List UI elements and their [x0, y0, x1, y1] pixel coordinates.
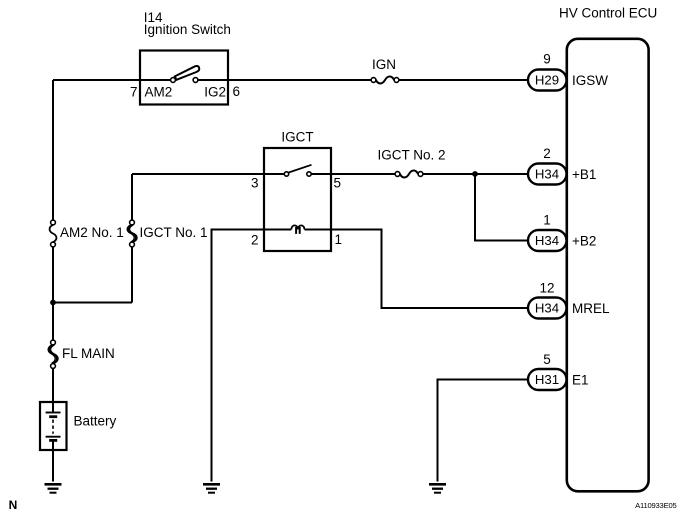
- junction node at (475,174): [472, 171, 478, 177]
- wire: fuse to +B1 pin: [423, 173, 530, 175]
- ground (battery): [45, 484, 62, 492]
- wire: relay switch row inside box: [264, 173, 331, 175]
- wire: left rail below AM2 fuse to junction: [52, 247, 54, 303]
- switch contact circle AM2 (pin 7): [171, 78, 176, 83]
- relay IGCT box: [264, 148, 331, 251]
- battery cell plates: [52, 402, 54, 413]
- wire: IGN feed from ignition switch to IGN fuse: [228, 79, 371, 81]
- svg-text:+B2: +B2: [572, 233, 596, 248]
- relay contact circle pin3 side: [284, 172, 288, 176]
- svg-text:IGCT No. 2: IGCT No. 2: [378, 148, 446, 163]
- fuse FL MAIN (fusible link): [51, 340, 56, 345]
- connector pin H31 (E1): [528, 369, 567, 390]
- wire: IGN fuse to H29 IGSW pin: [399, 79, 530, 81]
- connector pin H29 (IGSW): [528, 70, 567, 91]
- svg-text:IGCT No. 1: IGCT No. 1: [140, 225, 208, 240]
- svg-text:IGSW: IGSW: [572, 73, 608, 88]
- junction node at (53,302.5): [50, 300, 56, 306]
- relay switch lever: [288, 165, 311, 173]
- wire: battery rail top horizontal (53,80)-(140,80): [53, 79, 140, 81]
- wire: battery to ground: [52, 450, 54, 482]
- connector pin H34 (+B1): [528, 164, 567, 185]
- svg-text:H34: H34: [535, 167, 559, 182]
- wire: left rail vertical x=53 from y80 to AM2 fuse: [52, 80, 54, 220]
- svg-text:HV Control ECU: HV Control ECU: [559, 6, 657, 21]
- svg-text:5: 5: [543, 352, 551, 367]
- wire: to IGCT pin 3 (132,174)-(264,174): [132, 173, 264, 175]
- wire: +B2 branch vertical and horizontal: [475, 174, 530, 241]
- fuse AM2 No. 1 (left rail): [51, 220, 56, 225]
- svg-text:A110933E05: A110933E05: [635, 501, 676, 510]
- relay coil: [291, 225, 304, 229]
- svg-text:2: 2: [251, 233, 259, 248]
- ground (E1): [429, 484, 446, 492]
- fuse IGN: [371, 78, 376, 83]
- svg-text:9: 9: [543, 52, 551, 67]
- svg-text:1: 1: [543, 213, 551, 228]
- svg-text:E1: E1: [572, 372, 589, 387]
- wire: IGCT pin1 to MREL: [331, 230, 530, 309]
- ignition switch I14 box: [140, 51, 228, 105]
- relay contact circle pin5 side: [307, 172, 311, 176]
- svg-text:5: 5: [334, 176, 342, 191]
- wire: IGCT No.1 rail vertical x=132: [131, 174, 133, 303]
- wire: inside ignition switch to AM2 contact: [140, 79, 171, 81]
- wire: E1 to ground: [438, 380, 531, 482]
- svg-text:2: 2: [543, 146, 551, 161]
- svg-text:12: 12: [539, 281, 554, 296]
- svg-text:+B1: +B1: [572, 167, 596, 182]
- wire: left rail junction to FL MAIN: [52, 303, 54, 341]
- svg-text:7: 7: [130, 85, 138, 100]
- svg-text:Ignition Switch: Ignition Switch: [144, 22, 231, 37]
- svg-text:6: 6: [233, 84, 241, 99]
- svg-text:IGN: IGN: [372, 57, 396, 72]
- svg-text:MREL: MREL: [572, 301, 610, 316]
- wire: IGCT pin2 to ground rail: [212, 230, 265, 482]
- switch blade lever: [175, 66, 199, 80]
- svg-text:H31: H31: [535, 372, 559, 387]
- svg-text:3: 3: [251, 176, 259, 191]
- wire: IG2 contact to box edge: [198, 79, 228, 81]
- svg-text:AM2: AM2: [145, 85, 173, 100]
- svg-text:H29: H29: [535, 73, 559, 88]
- svg-text:Battery: Battery: [74, 414, 117, 429]
- relay coil row wires: [264, 229, 331, 231]
- connector pin H34 (+B2): [528, 230, 567, 251]
- wire: IGCT pin5 to IGCT No.2 fuse: [331, 173, 395, 175]
- svg-text:IG2: IG2: [204, 85, 226, 100]
- svg-text:N: N: [9, 498, 18, 512]
- svg-text:AM2 No. 1: AM2 No. 1: [60, 225, 124, 240]
- fuse IGCT No. 2: [395, 172, 400, 177]
- fuse IGCT No. 1 (fusible link): [130, 220, 135, 225]
- connector pin H34 (MREL): [528, 298, 567, 319]
- wire: FL MAIN to battery: [52, 368, 54, 402]
- wire: branch from IGCT No.1 rail, horizontal (53,302.5)-(132,302.5): [53, 302, 132, 304]
- svg-text:FL MAIN: FL MAIN: [62, 346, 115, 361]
- svg-text:H34: H34: [535, 233, 559, 248]
- switch contact circle IG2 (pin 6): [193, 78, 198, 83]
- svg-text:1: 1: [335, 232, 343, 247]
- battery box: [40, 402, 67, 450]
- ground (IGCT pin2): [203, 484, 220, 492]
- HV Control ECU body: [567, 39, 649, 492]
- svg-text:IGCT: IGCT: [281, 130, 313, 145]
- svg-text:H34: H34: [535, 301, 559, 316]
